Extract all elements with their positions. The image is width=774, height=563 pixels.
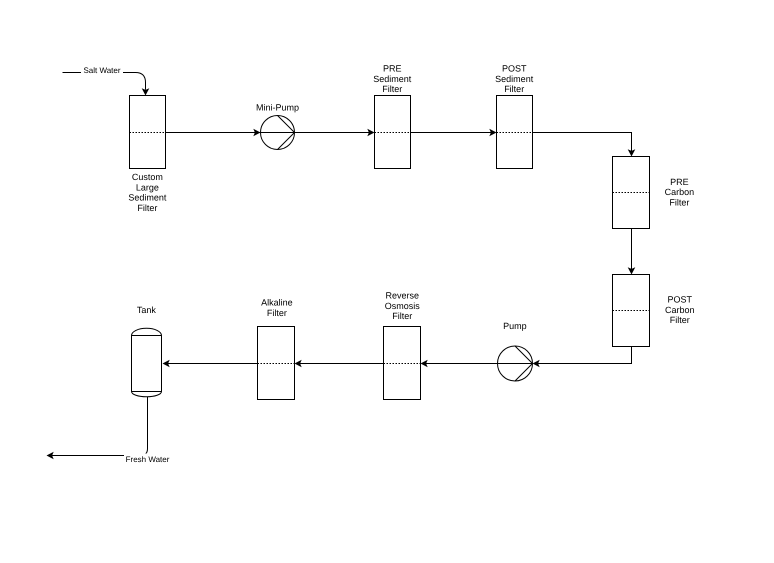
filter PRE Carbon Filter [613, 157, 650, 229]
wire custom filter to mini-pump to PRE sediment filter [166, 132, 370, 134]
svg-text:Fresh Water: Fresh Water [126, 455, 170, 464]
svg-text:Salt Water: Salt Water [83, 66, 120, 75]
tank Tank [132, 328, 162, 396]
wire PRE sediment filter to POST sediment filter [411, 132, 492, 134]
filter Reverse Osmosis Filter [384, 327, 421, 400]
wire POST sediment filter to PRE carbon filter [533, 133, 632, 152]
filter POST Carbon Filter [613, 275, 650, 347]
wire salt water inlet [63, 73, 146, 90]
wire tank to fresh water outlet [52, 397, 148, 456]
filter POST Sediment Filter [497, 96, 533, 169]
pump Pump [498, 346, 533, 381]
filter Alkaline Filter [258, 327, 295, 400]
svg-text:Mini-Pump: Mini-Pump [256, 103, 299, 113]
wire PRE carbon filter to POST carbon filter [631, 229, 633, 270]
wire pump to reverse osmosis filter [426, 363, 533, 365]
node label Fresh Water [124, 454, 171, 465]
wire alkaline filter to tank [168, 363, 258, 365]
node label Salt Water [81, 66, 123, 76]
svg-text:Tank: Tank [137, 305, 157, 315]
wire reverse osmosis filter to alkaline filter [300, 363, 384, 365]
filter PRE Sediment Filter [375, 96, 411, 169]
wire POST carbon filter to pump [538, 347, 632, 364]
pump Mini-Pump [261, 116, 295, 150]
filter Custom Large Sediment Filter [130, 96, 166, 169]
svg-text:Pump: Pump [503, 321, 527, 331]
